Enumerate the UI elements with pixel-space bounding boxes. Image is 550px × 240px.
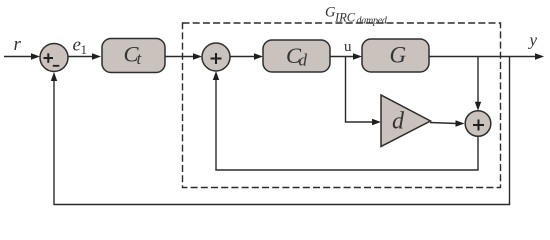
svg-text:1: 1 <box>81 42 88 57</box>
svg-text:IRC: IRC <box>334 11 356 25</box>
svg-text:u: u <box>344 39 352 55</box>
svg-text:damped: damped <box>357 16 388 27</box>
svg-text:y: y <box>528 31 538 50</box>
svg-text:G: G <box>390 43 407 68</box>
svg-text:d: d <box>392 109 405 135</box>
svg-text:r: r <box>14 34 22 55</box>
svg-text:d: d <box>299 51 308 70</box>
